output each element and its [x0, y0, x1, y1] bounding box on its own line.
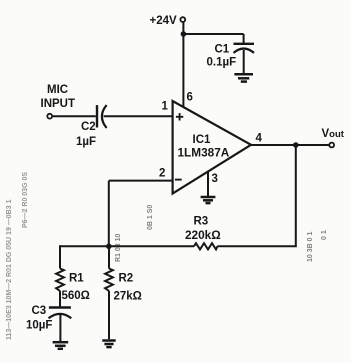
- wire pin-2 vertical down to node: [108, 181, 110, 247]
- wire +24V vertical down to op-amp top edge: [182, 22, 184, 107]
- svg-text:P6—2 R0 03G 0S: P6—2 R0 03G 0S: [22, 172, 29, 228]
- svg-text:1µF: 1µF: [76, 136, 96, 148]
- svg-text:560Ω: 560Ω: [62, 290, 90, 302]
- capacitor C1: [234, 44, 255, 53]
- ground at pin 3: [201, 197, 216, 203]
- svg-text:6: 6: [187, 92, 193, 104]
- minus symbol pin 2: [175, 179, 182, 181]
- node feedback junction: [106, 244, 112, 250]
- svg-text:0.1µF: 0.1µF: [207, 57, 237, 69]
- svg-text:0 1: 0 1: [321, 230, 328, 240]
- wire node to R2 down: [108, 246, 110, 268]
- svg-text:3: 3: [212, 173, 218, 185]
- wire R1 to C3: [59, 291, 61, 307]
- faint bleed-through middle: [115, 205, 328, 262]
- svg-text:+24V: +24V: [150, 15, 178, 27]
- plus symbol pin 1: [176, 113, 183, 120]
- svg-text:220kΩ: 220kΩ: [185, 228, 221, 242]
- svg-text:113—10E3 10M—2 R01 DG 05U 19 —: 113—10E3 10M—2 R01 DG 05U 19 —0B3 1: [6, 199, 13, 340]
- svg-text:R2: R2: [119, 273, 134, 285]
- wire C1 top stub: [243, 34, 245, 44]
- svg-text:R1: R1: [69, 273, 84, 285]
- svg-text:Vout: Vout: [322, 128, 345, 140]
- resistor R2: [105, 269, 113, 291]
- Vout terminal circle: [329, 143, 334, 148]
- svg-text:C1: C1: [215, 44, 230, 56]
- wire node right to R3: [109, 245, 194, 247]
- wire R2 to ground: [108, 291, 110, 339]
- svg-text:MIC: MIC: [47, 84, 68, 96]
- wire C1 to ground: [243, 50, 245, 74]
- faint bleed-through text left edge: [6, 172, 29, 340]
- capacitor C3: [49, 308, 72, 319]
- node junction at +24V rail: [181, 31, 187, 37]
- svg-text:C2: C2: [81, 121, 96, 133]
- svg-text:27kΩ: 27kΩ: [114, 291, 142, 303]
- wire pin 3 to ground: [207, 172, 209, 197]
- wire R3 to right corner and up: [217, 145, 295, 246]
- wire C3 to ground: [59, 315, 61, 341]
- node output junction: [293, 142, 299, 148]
- mic input terminal circle: [47, 114, 52, 119]
- capacitor C2: [97, 105, 107, 128]
- resistor R3: [194, 243, 217, 249]
- wire node left segment: [60, 245, 109, 247]
- ground under C3: [53, 342, 69, 349]
- svg-text:C3: C3: [32, 305, 47, 317]
- svg-text:2: 2: [159, 168, 165, 180]
- svg-text:4: 4: [256, 133, 263, 145]
- ground under R2: [102, 341, 115, 348]
- resistor R1: [56, 269, 64, 291]
- svg-text:10 3B 0 1: 10 3B 0 1: [307, 232, 314, 262]
- svg-text:INPUT: INPUT: [41, 98, 76, 110]
- svg-text:1: 1: [162, 101, 169, 113]
- +24V terminal circle: [180, 17, 185, 22]
- wire down to R1: [59, 245, 61, 268]
- svg-text:0B 1 S0: 0B 1 S0: [147, 205, 154, 230]
- wire +24V junction to C1 horizontal: [183, 33, 243, 35]
- wire input to C2: [53, 115, 96, 117]
- op-amp U1 triangle: [173, 101, 251, 194]
- wire pin 2 left: [109, 180, 173, 182]
- svg-text:R1 03 10: R1 03 10: [115, 233, 122, 262]
- wire output pin 4: [251, 144, 329, 146]
- svg-text:IC1: IC1: [193, 134, 212, 146]
- wire C2 to pin 1: [104, 115, 173, 117]
- ground under C1: [234, 74, 253, 81]
- svg-text:R3: R3: [194, 216, 209, 228]
- svg-text:10µF: 10µF: [26, 320, 52, 332]
- svg-text:1LM387A: 1LM387A: [178, 146, 230, 160]
